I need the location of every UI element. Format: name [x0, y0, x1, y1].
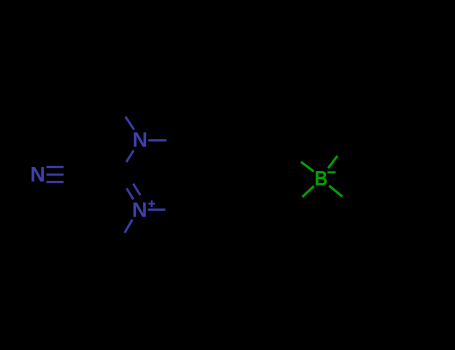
plus charge on lower N — [148, 200, 155, 207]
boron label B — [316, 171, 327, 185]
methyl bond from upper N (up-left) — [125, 117, 134, 130]
double bond C=N+ — [127, 184, 141, 200]
amine nitrogen label N (upper) — [134, 132, 146, 146]
borate methyl bond (up-left) — [301, 162, 314, 172]
borate methyl bond (up-right) — [328, 156, 337, 168]
methyl bond from upper N (right) — [148, 139, 166, 141]
bond central C to amine N (upper) — [126, 150, 133, 162]
nitrile nitrogen label N — [32, 167, 44, 181]
triple bond C#N — [46, 167, 63, 182]
borate methyl bond (down-right) — [329, 186, 342, 197]
methyl bond from lower N (down-left) — [125, 220, 133, 233]
methyl bond from lower N (right) — [148, 209, 166, 211]
minus charge on B — [327, 171, 335, 173]
iminium nitrogen label N (lower) — [133, 202, 145, 216]
borate methyl bond (down-left) — [302, 186, 314, 197]
